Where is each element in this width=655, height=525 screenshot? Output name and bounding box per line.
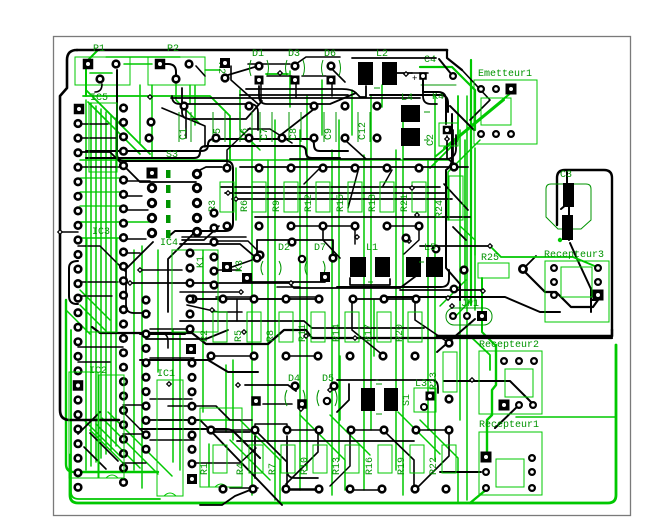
IC pads column [147, 168, 158, 237]
wire R25 to Recepteur3 [420, 246, 598, 307]
wire black outline Recepteur3 [437, 170, 612, 336]
svg-text:D3: D3 [288, 49, 300, 60]
svg-text:D1: D1 [252, 49, 264, 60]
connector column pads 2 [120, 105, 127, 486]
pad row mid [257, 235, 410, 259]
wire black traces mid [60, 152, 470, 313]
wire black traces top [86, 50, 462, 158]
svg-text:R20: R20 [395, 324, 406, 342]
wire black bankC connects [200, 441, 414, 505]
svg-text:L4: L4 [401, 93, 413, 104]
relay K1 [196, 256, 207, 268]
svg-text:R25: R25 [481, 253, 499, 264]
IC IC4 [160, 238, 218, 332]
module Recepteur1 [479, 420, 542, 495]
svg-text:C12: C12 [358, 122, 369, 140]
relay K4 [423, 80, 446, 124]
diode D3 [286, 49, 305, 85]
svg-text:IC5: IC5 [90, 93, 108, 104]
wire diode link [240, 70, 366, 97]
wire ground ring bottom [66, 300, 616, 503]
svg-text:R9: R9 [272, 200, 283, 212]
svg-text:R11: R11 [298, 324, 309, 342]
svg-text:C4: C4 [424, 55, 436, 66]
vias [58, 71, 475, 412]
svg-text:R15: R15 [336, 194, 347, 212]
connector JP1 [446, 299, 492, 325]
svg-text:R12: R12 [304, 194, 315, 212]
svg-text:C8: C8 [289, 128, 300, 140]
pad column mid upper [143, 250, 194, 333]
svg-text:P1: P1 [93, 44, 105, 55]
wire bundle left verticals [86, 100, 116, 470]
inductor L5 [406, 243, 443, 277]
diode D1 [250, 49, 269, 85]
svg-text:D7: D7 [314, 243, 326, 254]
relay K2 [215, 58, 258, 81]
wire green diagonals right [420, 60, 616, 417]
IC pads column 2 [193, 170, 200, 235]
svg-text:IC1: IC1 [157, 369, 175, 380]
inductor L4 [401, 93, 430, 146]
wire black traces lower [70, 297, 449, 490]
connector CON2 outline [69, 372, 98, 478]
svg-text:R22: R22 [429, 457, 440, 475]
svg-text:C3: C3 [560, 170, 572, 181]
inductor L3 [361, 376, 427, 414]
jumper S3 [166, 150, 178, 238]
resistor bank R2-R23 [190, 296, 457, 403]
svg-text:S3: S3 [166, 150, 178, 161]
wire Recepteur1 green [470, 345, 496, 503]
diode D5 [317, 374, 337, 406]
module Recepteur2 [479, 340, 542, 414]
svg-text:Recepteur2: Recepteur2 [479, 340, 539, 351]
module Emetteur1 [474, 69, 537, 144]
wire black traces right [385, 70, 560, 352]
svg-text:S1: S1 [402, 394, 413, 406]
svg-text:R18: R18 [368, 194, 379, 212]
svg-text:L5: L5 [424, 243, 436, 254]
wire Recepteur1 black [440, 471, 481, 473]
jumper S1 [402, 388, 436, 412]
svg-text:R17: R17 [364, 324, 375, 342]
wire green lower diagonals [160, 300, 458, 503]
svg-text:R7: R7 [268, 463, 279, 475]
svg-text:Emetteur1: Emetteur1 [478, 69, 532, 80]
svg-text:R14: R14 [332, 324, 343, 342]
svg-text:Recepteur3: Recepteur3 [544, 250, 604, 261]
svg-text:R2: R2 [200, 330, 211, 342]
resistor bank R3-R24 [208, 164, 463, 293]
svg-text:R4: R4 [236, 463, 247, 475]
inductor L2 [358, 49, 412, 88]
svg-text:R13: R13 [332, 457, 343, 475]
pad column IC4 [211, 210, 218, 289]
module Recepteur3 [544, 250, 609, 322]
wire bundle lower left verticals [134, 246, 233, 488]
svg-text:C9: C9 [324, 128, 335, 140]
inductor L1 [350, 243, 390, 282]
svg-text:L1: L1 [366, 243, 378, 254]
wire black staircase mid [69, 124, 612, 463]
svg-text:R6: R6 [240, 200, 251, 212]
wire green h traces [66, 50, 450, 476]
wire black D2 cluster [232, 240, 333, 282]
capacitor C4 [352, 55, 456, 85]
pad columns lower mid [143, 331, 197, 484]
resistor R25 [461, 244, 527, 278]
capacitor C2 [426, 123, 458, 146]
svg-text:R21: R21 [400, 194, 411, 212]
resistor bank R1-R22 [200, 427, 456, 493]
wire bundle mid verticals [252, 96, 467, 500]
svg-text:D6: D6 [324, 49, 336, 60]
pad grid top [146, 103, 381, 142]
capacitor C3 [546, 170, 591, 242]
svg-text:K1: K1 [196, 256, 207, 268]
svg-text:R8: R8 [266, 330, 277, 342]
diode D6 [322, 49, 341, 85]
IC IC1 [157, 369, 183, 496]
svg-text:Recepteur1: Recepteur1 [479, 420, 539, 431]
svg-text:C2: C2 [426, 134, 437, 146]
diode D4 [251, 374, 307, 409]
svg-text:R24: R24 [435, 200, 446, 218]
svg-text:R23: R23 [429, 372, 440, 390]
IC IC3 [87, 227, 117, 332]
svg-text:-: - [374, 376, 380, 387]
svg-text:C1: C1 [179, 128, 190, 140]
svg-text:R16: R16 [365, 457, 376, 475]
wire black D4 band [245, 380, 438, 412]
wire black top band [162, 84, 468, 167]
board outline [60, 50, 447, 420]
svg-text:R19: R19 [397, 457, 408, 475]
connector P2 [148, 44, 205, 85]
svg-text:IC3: IC3 [92, 227, 110, 238]
svg-text:R10: R10 [300, 457, 311, 475]
wire Recepteur2 black [444, 381, 532, 428]
svg-text:C7: C7 [260, 128, 271, 140]
relay K3 [235, 260, 246, 272]
connector P1 [75, 44, 233, 237]
svg-text:K3: K3 [235, 260, 246, 272]
IC IC2 [89, 366, 124, 478]
diode D7 [299, 243, 337, 282]
connector column pads left [73, 104, 85, 491]
svg-text:IC4: IC4 [160, 238, 178, 249]
IC IC5 [89, 93, 117, 172]
svg-text:D2: D2 [278, 243, 290, 254]
svg-text:P2: P2 [167, 44, 179, 55]
IC IC6 [200, 408, 242, 487]
wire black bottom band [84, 330, 350, 505]
svg-text:+: + [412, 74, 417, 84]
diode D2 [222, 243, 290, 283]
svg-text:R1: R1 [200, 463, 211, 475]
capacitor labels C1 C5 C6 C7 C8 C9 C12 [179, 112, 370, 142]
